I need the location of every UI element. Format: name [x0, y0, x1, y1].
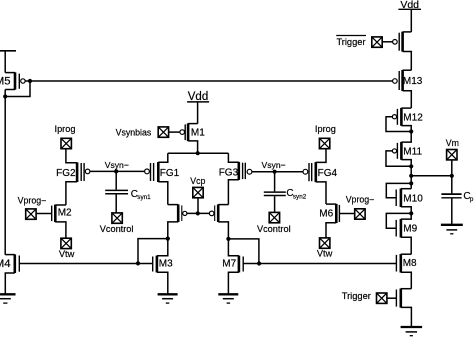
svg-text:Vcontrol: Vcontrol [257, 224, 291, 234]
node: Cp top [450, 174, 454, 178]
svg-text:M13: M13 [403, 76, 423, 87]
pad Vcp [193, 187, 203, 197]
cascode PMOS left (unlabeled) [168, 204, 187, 238]
trigger PMOS (top, unlabeled) [393, 32, 412, 70]
pad Vtw (right) [320, 238, 330, 248]
wire: Vsynbias pad to M1 gate [169, 131, 180, 133]
label Trigger (top, active-low overline) [336, 36, 366, 48]
svg-text:FG4: FG4 [318, 168, 338, 179]
transistor M1 (PMOS) [180, 123, 205, 153]
label Vsyn- right [262, 160, 286, 170]
svg-text:Vprog−: Vprog− [18, 195, 47, 205]
node: Vcp gate junction [196, 211, 200, 215]
node: M11 drain [409, 164, 413, 168]
transistor M6 (NMOS) [319, 204, 355, 238]
trigger NMOS (bottom, unlabeled) [396, 289, 411, 327]
svg-text:M12: M12 [403, 112, 423, 123]
floating-gate transistor FG4 [303, 149, 337, 204]
pad Trigger (bottom) [377, 293, 387, 303]
svg-text:M11: M11 [403, 147, 422, 158]
label Vcp [190, 176, 205, 186]
svg-text:M2: M2 [58, 207, 72, 218]
cascode PMOS right (unlabeled) [209, 204, 228, 239]
label Vtw (right) [317, 248, 333, 258]
wire: trigger pad to PMOS gate [382, 41, 392, 43]
svg-text:M5: M5 [0, 76, 11, 88]
node: M3 drain node [166, 237, 170, 241]
wire: gate wire between cascode PMOS pair [187, 212, 210, 214]
node: M7 drain node [226, 237, 230, 241]
ground (M7 source) [218, 294, 238, 303]
svg-text:M7: M7 [222, 259, 236, 270]
node: left bus junction [3, 94, 7, 98]
label Iprog (right) [315, 124, 336, 134]
wire: source rail FG1-FG3 [168, 152, 229, 154]
wire: M5 gate to M13 gate (top bus) [25, 80, 392, 82]
wire: M4 gate to M3 gate (bottom-left bus) [20, 263, 152, 265]
Vdd supply label (center) [187, 91, 209, 103]
svg-text:M9: M9 [403, 224, 417, 235]
node: M10 source / M9 drain [409, 211, 413, 215]
svg-text:M8: M8 [403, 258, 417, 269]
svg-text:Trigger: Trigger [342, 291, 371, 301]
pad Vprog- (right) [355, 209, 365, 219]
transistor M12 (PMOS diode-connected) [386, 108, 423, 132]
label Vsynbias [116, 127, 152, 137]
node: M5 gate junction [28, 79, 32, 83]
node: M7 gate junction [257, 261, 261, 265]
Vdd supply label (top right) [398, 0, 421, 11]
svg-text:Vsyn−: Vsyn− [105, 160, 129, 170]
node: M3 gate junction [136, 261, 140, 265]
node: M1 drain [196, 151, 200, 155]
ground (right column) [401, 327, 423, 336]
transistor M4 (NMOS) [0, 254, 19, 294]
label Vprog- (left) [18, 195, 47, 205]
pad Vprog- (left) [26, 209, 36, 219]
svg-text:syn1: syn1 [137, 194, 151, 201]
label Vprog- (right) [346, 194, 375, 204]
svg-text:Vsynbias: Vsynbias [116, 127, 152, 137]
svg-text:FG2: FG2 [56, 168, 76, 179]
wire: trigger pad to NMOS gate [387, 297, 397, 299]
transistor M13 (PMOS) [393, 70, 423, 108]
svg-text:syn2: syn2 [293, 193, 307, 200]
pad Vcontrol (right) [269, 212, 279, 222]
capacitor Csyn2 [264, 172, 307, 213]
svg-text:M4: M4 [0, 258, 11, 270]
svg-text:Vcontrol: Vcontrol [100, 224, 134, 234]
capacitor Csyn1 [105, 171, 151, 213]
wire: M3 diode loop [138, 239, 168, 264]
transistor M7 (NMOS diode-connected) [222, 239, 259, 294]
transistor M10 (NMOS diode-connected) [386, 183, 423, 213]
svg-text:M1: M1 [191, 128, 205, 139]
pad Iprog (right) [319, 138, 329, 148]
wire: to Vm and Cp [411, 175, 452, 177]
label Trigger (bottom) [342, 291, 371, 301]
floating-gate transistor FG3 [219, 153, 252, 204]
svg-text:Vtw: Vtw [59, 249, 75, 259]
wire: rail to M5 source [4, 51, 6, 73]
wire: node column M11-M10 [410, 166, 412, 188]
wire: Vcp pad to gate node [197, 198, 199, 214]
svg-text:Vcp: Vcp [190, 176, 205, 186]
svg-text:Vsyn−: Vsyn− [262, 160, 286, 170]
power rail stub top-left [0, 50, 16, 52]
svg-text:Iprog: Iprog [55, 124, 76, 134]
wire: M7 diode loop [228, 239, 259, 264]
label Vcontrol (left) [100, 224, 134, 234]
node: Vsyn- right [273, 170, 277, 174]
node: M10 gate junction [409, 181, 413, 185]
svg-text:FG1: FG1 [160, 168, 180, 179]
wire: Vsyn- (right) FG3 gate to FG4 gate [252, 171, 303, 173]
svg-text:Vm: Vm [446, 138, 459, 148]
label Iprog (left) [55, 124, 76, 134]
ground (M4 source) [0, 294, 15, 303]
pad Vcontrol (left) [112, 213, 122, 223]
ground (Cp) [441, 225, 463, 234]
svg-text:p: p [470, 196, 474, 203]
transistor M5 (PMOS diode-connected) [0, 72, 25, 89]
svg-text:M6: M6 [319, 209, 333, 220]
floating-gate transistor FG2 [56, 149, 90, 205]
label Vcontrol (right) [257, 224, 291, 234]
svg-text:FG3: FG3 [219, 168, 239, 179]
node: M12 drain [409, 129, 413, 133]
wire: left bus (M5 drain to M4 drain) [4, 90, 6, 255]
label Vsyn- left [105, 160, 129, 170]
pad Vm [447, 150, 457, 160]
svg-text:Vprog−: Vprog− [346, 194, 375, 204]
pad Vtw (left) [61, 238, 71, 248]
pad Trigger (top) [372, 37, 382, 47]
transistor M9 (NMOS diode-connected) [386, 213, 417, 254]
pad Vsynbias [158, 127, 168, 137]
wire: Vdd to trigger PMOS source [410, 9, 412, 32]
capacitor Cp [441, 176, 474, 224]
label Vm [446, 138, 459, 148]
node: Vsyn- left [114, 169, 118, 173]
transistor M3 (NMOS diode-connected) [153, 239, 173, 294]
label Vtw (left) [59, 249, 75, 259]
wire: M5 diode loop to left bus [5, 81, 30, 97]
wire: Vdd to M1 source [197, 102, 199, 124]
svg-text:Vtw: Vtw [317, 248, 333, 258]
ground (M3 source) [158, 294, 178, 303]
wire: M7 gate to M8 gate (bottom-right bus) [259, 263, 396, 265]
node: Vm tap [409, 174, 413, 178]
wire: Vsyn- (left) FG2 gate to FG1 gate [90, 170, 145, 172]
svg-text:M10: M10 [403, 194, 423, 205]
transistor M2 (NMOS) [36, 205, 72, 239]
transistor M11 (PMOS diode-connected) [386, 132, 422, 167]
pad Iprog (left) [61, 138, 71, 148]
svg-text:Iprog: Iprog [315, 124, 336, 134]
transistor M8 (NMOS) [396, 254, 417, 289]
svg-text:Trigger: Trigger [336, 37, 365, 47]
floating-gate transistor FG1 [145, 153, 180, 204]
svg-text:M3: M3 [159, 259, 173, 270]
wire: Vm pad down [451, 160, 453, 176]
